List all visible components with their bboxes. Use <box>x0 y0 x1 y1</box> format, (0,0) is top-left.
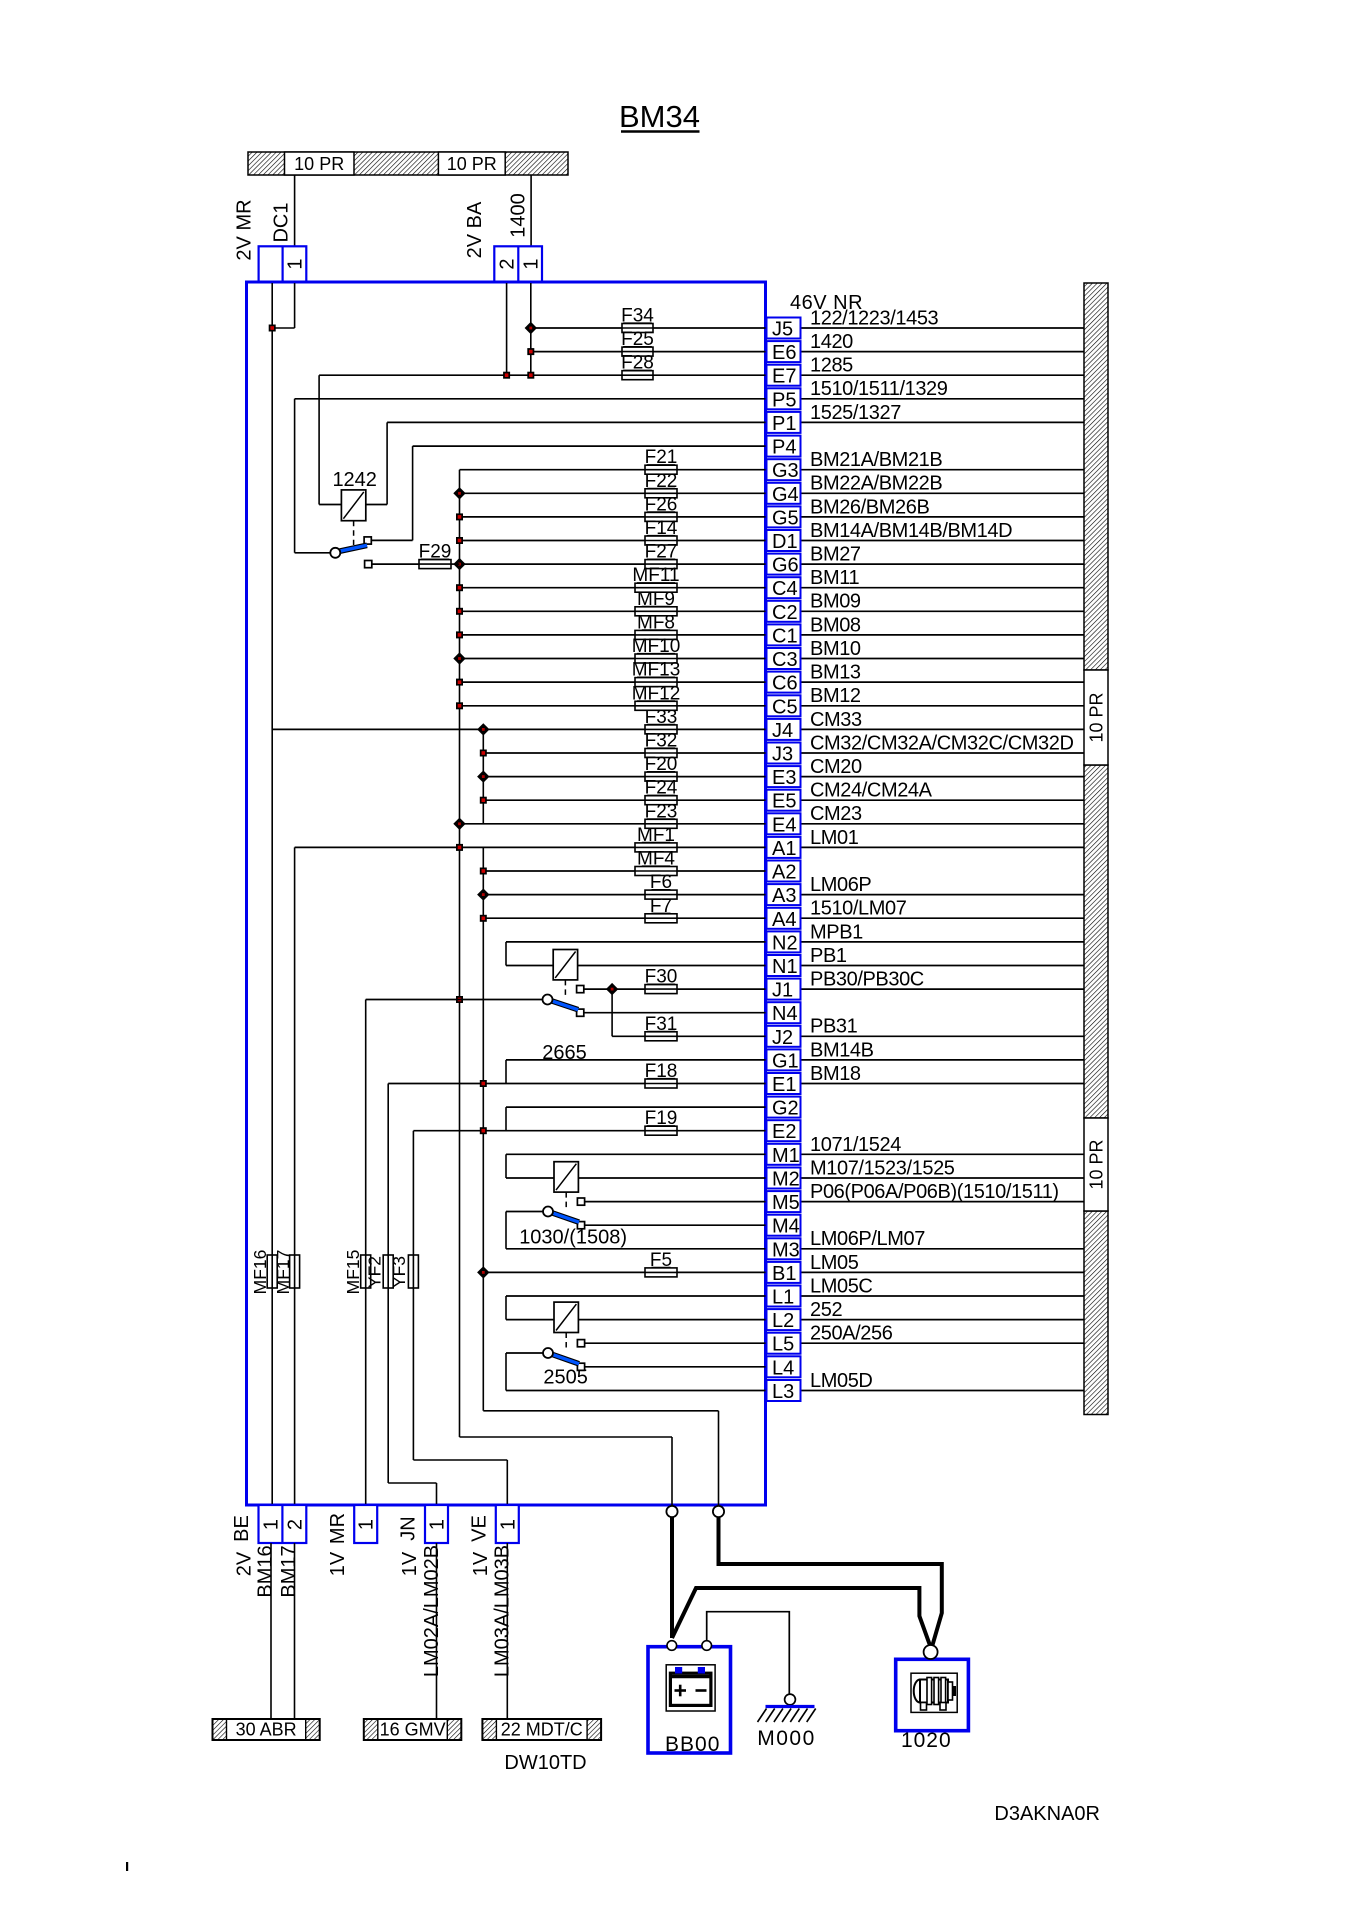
svg-text:N2: N2 <box>772 932 798 954</box>
svg-text:252: 252 <box>810 1299 842 1321</box>
svg-text:PB31: PB31 <box>810 1016 858 1038</box>
svg-text:1510/1511/1329: 1510/1511/1329 <box>810 378 948 400</box>
svg-text:P06(P06A/P06B)(1510/1511): P06(P06A/P06B)(1510/1511) <box>810 1181 1059 1203</box>
svg-text:L3: L3 <box>772 1381 794 1403</box>
svg-text:1: 1 <box>285 258 307 269</box>
svg-text:BM26/BM26B: BM26/BM26B <box>810 496 929 518</box>
svg-text:CM23: CM23 <box>810 803 862 825</box>
svg-text:10 PR: 10 PR <box>1086 692 1106 742</box>
svg-text:1: 1 <box>427 1519 449 1530</box>
svg-text:2V MR: 2V MR <box>234 199 256 260</box>
svg-text:BM08: BM08 <box>810 614 861 636</box>
svg-text:1400: 1400 <box>508 193 530 238</box>
svg-text:16 GMV: 16 GMV <box>380 1720 446 1740</box>
svg-text:1: 1 <box>356 1519 378 1530</box>
svg-text:LM06P/LM07: LM06P/LM07 <box>810 1228 925 1250</box>
svg-text:BM09: BM09 <box>810 591 861 613</box>
svg-text:G1: G1 <box>772 1050 799 1072</box>
svg-text:DC1: DC1 <box>271 202 293 242</box>
svg-text:BM27: BM27 <box>810 544 861 566</box>
svg-text:CM33: CM33 <box>810 709 862 731</box>
svg-text:PB1: PB1 <box>810 945 847 967</box>
svg-text:G6: G6 <box>772 555 799 577</box>
svg-text:1V: 1V <box>470 1551 492 1576</box>
svg-text:1285: 1285 <box>810 355 853 377</box>
svg-text:22 MDT/C: 22 MDT/C <box>501 1720 583 1740</box>
svg-text:1420: 1420 <box>810 331 853 353</box>
svg-text:BM11: BM11 <box>810 567 859 589</box>
svg-text:LM05: LM05 <box>810 1252 859 1274</box>
svg-text:L1: L1 <box>772 1287 794 1309</box>
svg-text:G3: G3 <box>772 460 799 482</box>
svg-text:M3: M3 <box>772 1239 800 1261</box>
svg-text:J3: J3 <box>772 744 793 766</box>
svg-text:1: 1 <box>521 258 543 269</box>
svg-text:J2: J2 <box>772 1027 793 1049</box>
svg-text:J4: J4 <box>772 720 793 742</box>
svg-text:E6: E6 <box>772 342 796 364</box>
svg-text:YF2: YF2 <box>365 1256 385 1288</box>
svg-text:M2: M2 <box>772 1169 800 1191</box>
svg-text:2V: 2V <box>234 1551 256 1576</box>
svg-text:46V NR: 46V NR <box>790 292 863 314</box>
svg-text:M107/1523/1525: M107/1523/1525 <box>810 1157 955 1179</box>
svg-text:G2: G2 <box>772 1098 799 1120</box>
svg-text:PB30/PB30C: PB30/PB30C <box>810 969 924 991</box>
svg-text:LM06P: LM06P <box>810 874 871 896</box>
svg-text:BM18: BM18 <box>810 1063 861 1085</box>
svg-text:2505: 2505 <box>543 1367 588 1389</box>
svg-text:A2: A2 <box>772 862 796 884</box>
svg-text:BM13: BM13 <box>810 662 861 684</box>
svg-text:LM05D: LM05D <box>810 1370 872 1392</box>
svg-text:A1: A1 <box>772 838 796 860</box>
svg-text:B1: B1 <box>772 1263 796 1285</box>
svg-text:N4: N4 <box>772 1003 798 1025</box>
svg-text:L5: L5 <box>772 1334 794 1356</box>
svg-text:J1: J1 <box>772 980 793 1002</box>
svg-text:M5: M5 <box>772 1192 800 1214</box>
svg-text:BM17: BM17 <box>278 1545 300 1597</box>
svg-text:CM24/CM24A: CM24/CM24A <box>810 780 933 802</box>
svg-text:P4: P4 <box>772 437 796 459</box>
svg-text:10 PR: 10 PR <box>294 154 344 174</box>
svg-text:DW10TD: DW10TD <box>504 1752 586 1774</box>
svg-text:VE: VE <box>469 1515 491 1542</box>
svg-text:MF16: MF16 <box>250 1250 270 1295</box>
svg-text:BM16: BM16 <box>255 1545 277 1597</box>
svg-text:LM02A/LM02B: LM02A/LM02B <box>421 1545 443 1677</box>
svg-text:2V BA: 2V BA <box>464 201 486 258</box>
svg-text:N1: N1 <box>772 956 798 978</box>
svg-text:LM05C: LM05C <box>810 1275 872 1297</box>
svg-text:BM21A/BM21B: BM21A/BM21B <box>810 449 942 471</box>
svg-text:J5: J5 <box>772 319 793 341</box>
svg-text:1242: 1242 <box>332 469 377 491</box>
svg-text:BM10: BM10 <box>810 638 861 660</box>
svg-text:A3: A3 <box>772 885 796 907</box>
svg-text:A4: A4 <box>772 909 796 931</box>
svg-text:1: 1 <box>497 1519 519 1530</box>
svg-text:BE: BE <box>231 1515 253 1542</box>
svg-text:C1: C1 <box>772 625 798 647</box>
svg-text:10 PR: 10 PR <box>447 154 497 174</box>
svg-text:C3: C3 <box>772 649 798 671</box>
svg-text:E7: E7 <box>772 366 796 388</box>
svg-text:1071/1524: 1071/1524 <box>810 1134 901 1156</box>
svg-text:1020: 1020 <box>901 1729 952 1752</box>
svg-text:MR: MR <box>327 1513 349 1544</box>
svg-text:YF3: YF3 <box>389 1256 409 1288</box>
svg-text:M000: M000 <box>757 1727 816 1750</box>
svg-text:P5: P5 <box>772 389 796 411</box>
svg-text:MPB1: MPB1 <box>810 921 863 943</box>
svg-text:C5: C5 <box>772 696 798 718</box>
svg-text:L2: L2 <box>772 1310 794 1332</box>
svg-text:2: 2 <box>284 1519 306 1530</box>
svg-text:BM12: BM12 <box>810 685 861 707</box>
svg-text:C4: C4 <box>772 578 798 600</box>
svg-text:MF15: MF15 <box>343 1250 363 1295</box>
svg-text:CM20: CM20 <box>810 756 862 778</box>
svg-text:G5: G5 <box>772 507 799 529</box>
svg-text:BM22A/BM22B: BM22A/BM22B <box>810 473 942 495</box>
svg-text:C6: C6 <box>772 673 798 695</box>
svg-text:E3: E3 <box>772 767 796 789</box>
svg-text:MF17: MF17 <box>273 1250 293 1295</box>
svg-text:BM14A/BM14B/BM14D: BM14A/BM14B/BM14D <box>810 520 1012 542</box>
svg-text:E4: E4 <box>772 814 796 836</box>
svg-text:1030/(1508): 1030/(1508) <box>519 1227 627 1249</box>
svg-text:BM34: BM34 <box>619 99 700 134</box>
svg-text:LM01: LM01 <box>810 827 859 849</box>
svg-text:1: 1 <box>260 1519 282 1530</box>
svg-text:P1: P1 <box>772 413 796 435</box>
svg-text:E1: E1 <box>772 1074 796 1096</box>
svg-text:G4: G4 <box>772 484 799 506</box>
svg-text:JN: JN <box>398 1516 420 1540</box>
svg-text:D3AKNA0R: D3AKNA0R <box>994 1803 1100 1825</box>
svg-text:10 PR: 10 PR <box>1086 1139 1106 1189</box>
svg-text:BM14B: BM14B <box>810 1039 874 1061</box>
svg-text:30 ABR: 30 ABR <box>236 1720 297 1740</box>
svg-text:LM03A/LM03B: LM03A/LM03B <box>492 1545 514 1677</box>
svg-text:E2: E2 <box>772 1121 796 1143</box>
svg-text:BB00: BB00 <box>665 1733 720 1756</box>
svg-text:L4: L4 <box>772 1357 794 1379</box>
svg-text:1525/1327: 1525/1327 <box>810 402 901 424</box>
svg-text:1510/LM07: 1510/LM07 <box>810 898 907 920</box>
svg-text:D1: D1 <box>772 531 798 553</box>
svg-text:1V: 1V <box>399 1551 421 1576</box>
svg-text:2665: 2665 <box>542 1042 587 1064</box>
svg-text:CM32/CM32A/CM32C/CM32D: CM32/CM32A/CM32C/CM32D <box>810 732 1074 754</box>
svg-text:1V: 1V <box>327 1551 349 1576</box>
svg-text:M4: M4 <box>772 1216 800 1238</box>
svg-text:2: 2 <box>497 258 519 269</box>
svg-text:E5: E5 <box>772 791 796 813</box>
svg-text:C2: C2 <box>772 602 798 624</box>
svg-text:M1: M1 <box>772 1145 800 1167</box>
svg-text:250A/256: 250A/256 <box>810 1323 893 1345</box>
